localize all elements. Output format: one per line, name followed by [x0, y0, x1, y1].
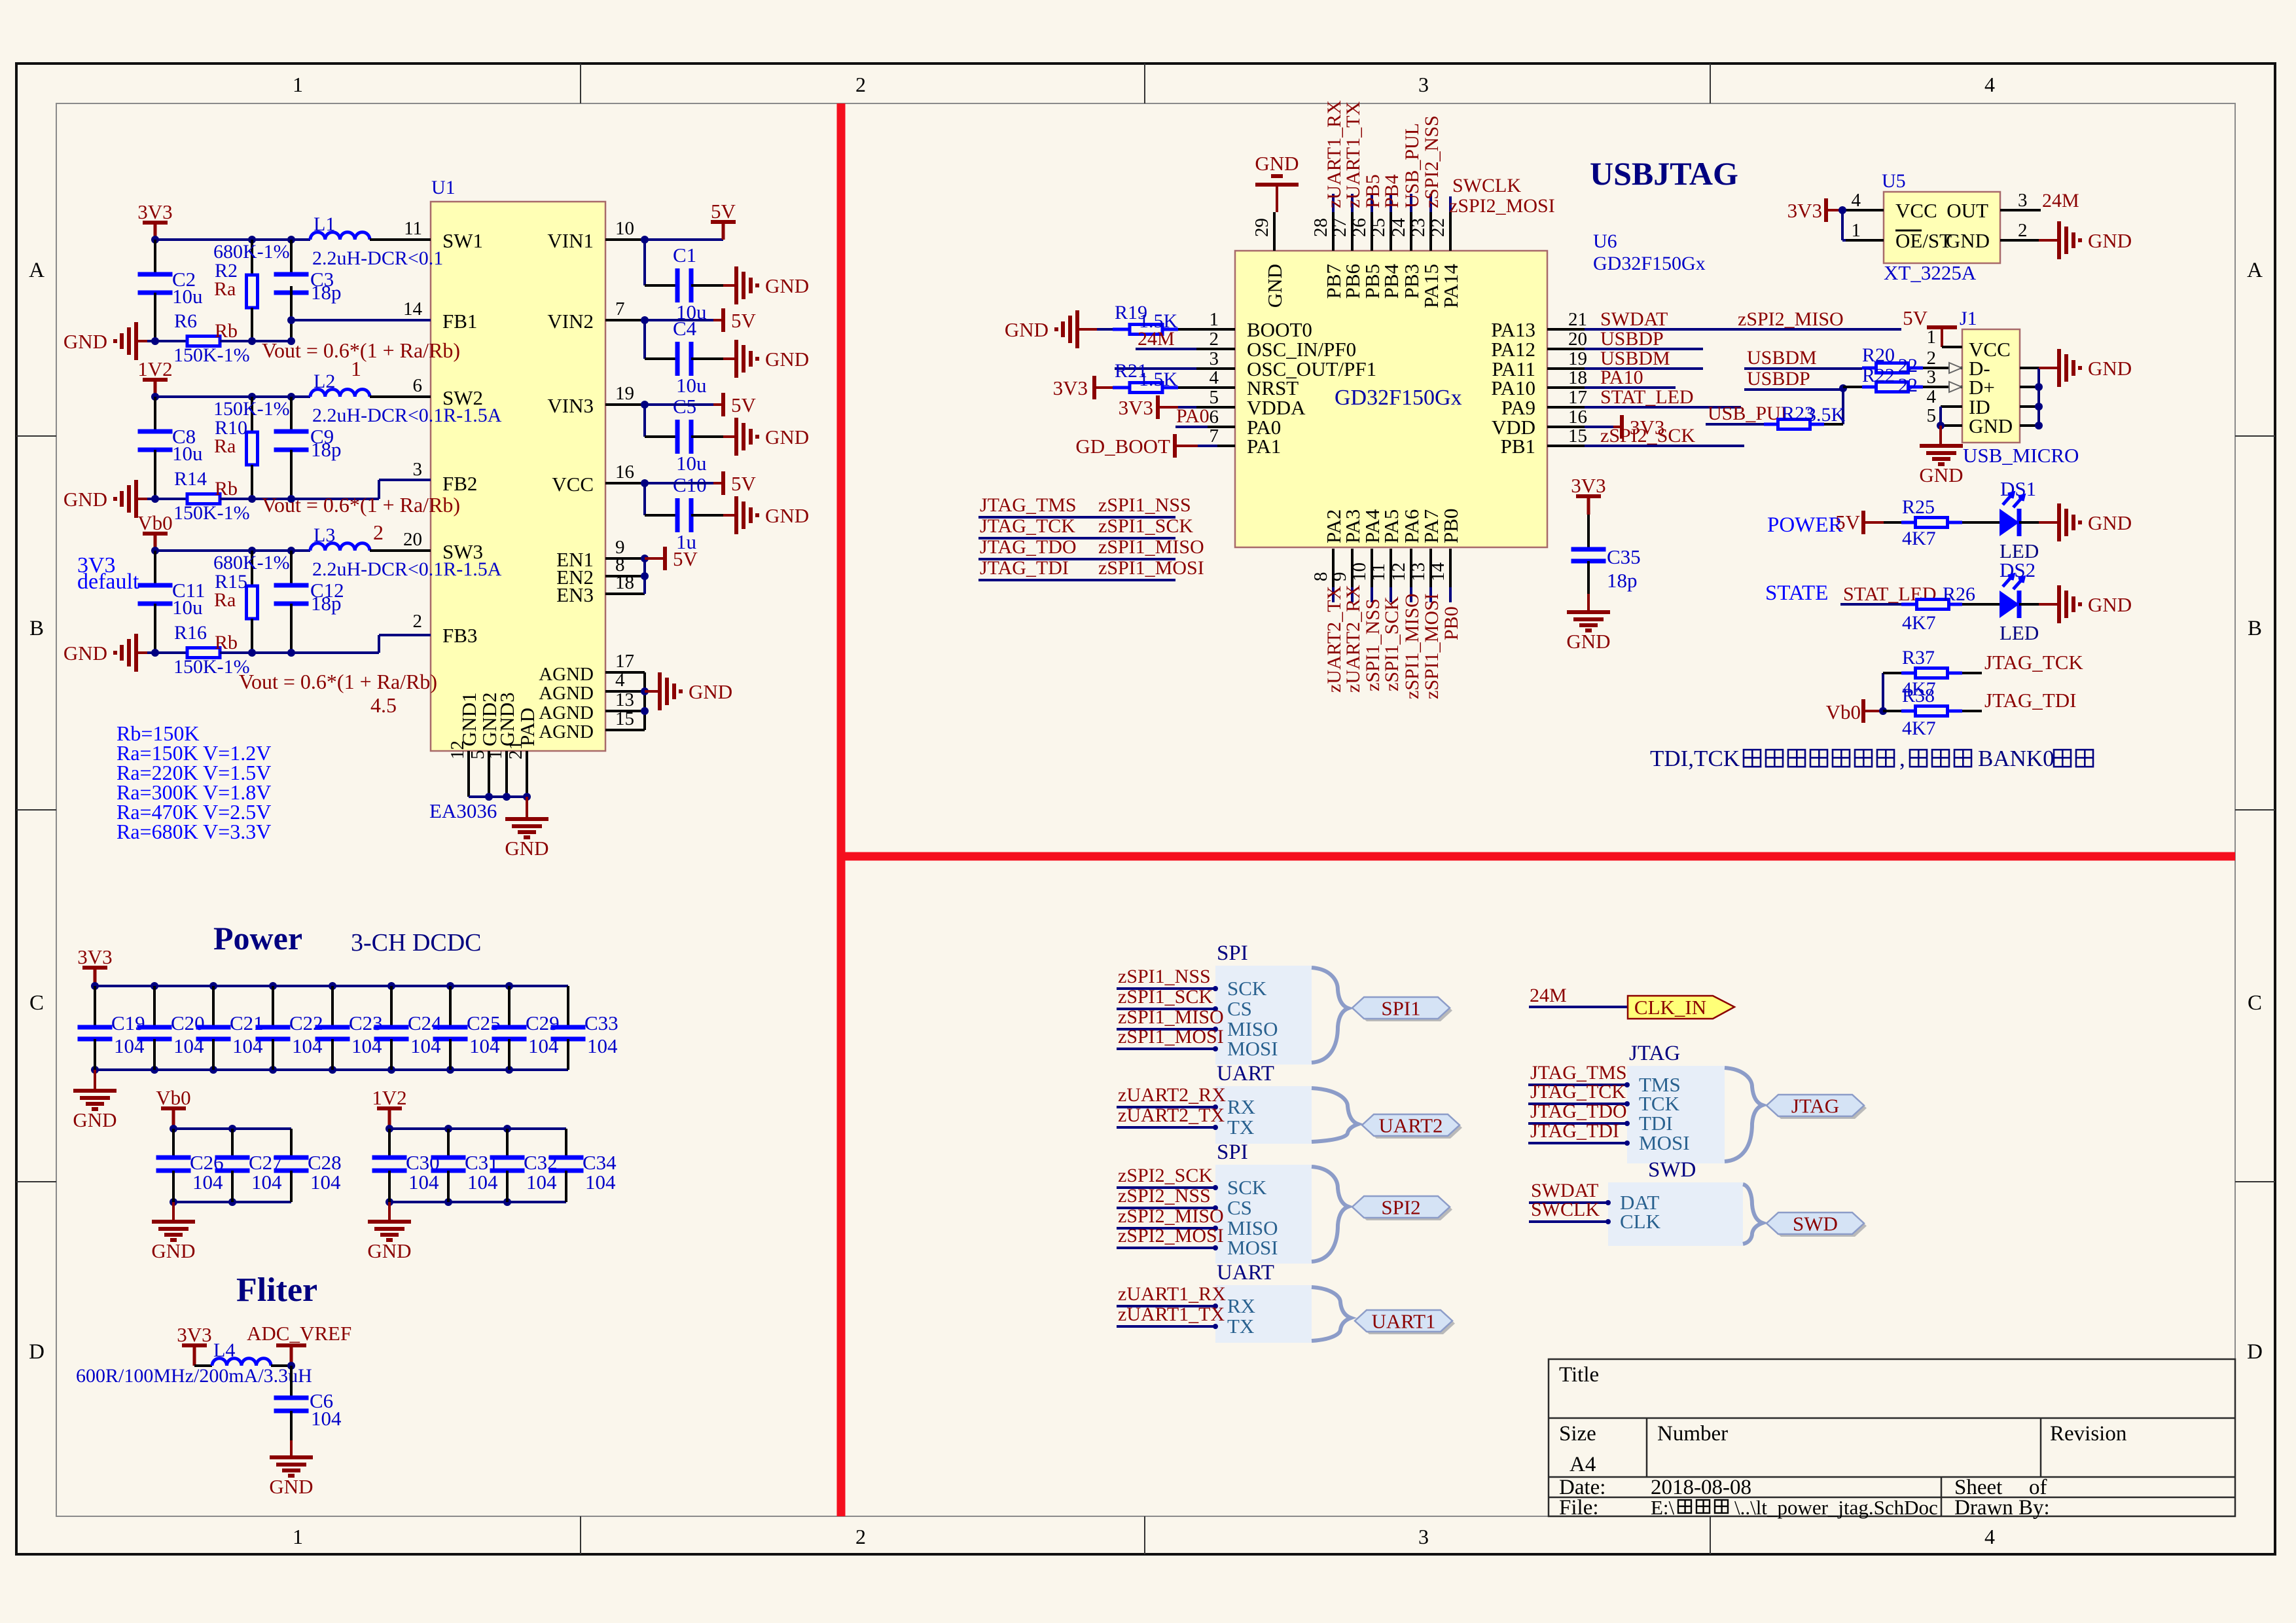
power 3V3 VDD: [1585, 426, 1613, 428]
U1 pin 18 EN3: [605, 593, 645, 595]
svg-text:Vout = 0.6*(1 + Ra/Rb): Vout = 0.6*(1 + Ra/Rb): [239, 670, 437, 693]
svg-text:Revision: Revision: [2050, 1422, 2126, 1446]
svg-text:UART: UART: [1217, 1261, 1274, 1285]
svg-text:18p: 18p: [1607, 569, 1638, 592]
resistor R38 4K7: [1883, 710, 1901, 712]
svg-text:C1: C1: [673, 244, 696, 266]
wire J1 right gnd: [2020, 367, 2039, 369]
inductor L1: [310, 232, 370, 240]
svg-text:VCC: VCC: [552, 473, 594, 496]
resistor R2 Ra: [251, 240, 253, 275]
svg-text:GD_BOOT: GD_BOOT: [1075, 435, 1170, 458]
svg-text:C19: C19: [111, 1012, 145, 1034]
ground 1V2 block: [134, 480, 138, 518]
svg-text:JTAG_TCK: JTAG_TCK: [1530, 1081, 1626, 1103]
svg-text:1: 1: [1210, 309, 1219, 330]
svg-text:Ra: Ra: [214, 278, 236, 300]
svg-text:STATE: STATE: [1765, 581, 1828, 605]
U1 pin 1 GND3: [505, 751, 508, 797]
U6 pin 19 PA11: [1547, 367, 1585, 370]
svg-text:JTAG_TDI: JTAG_TDI: [980, 557, 1069, 579]
svg-text:2: 2: [855, 1525, 866, 1548]
svg-text:2: 2: [1927, 348, 1937, 369]
svg-text:USBDP: USBDP: [1600, 328, 1664, 350]
svg-text:LED: LED: [2000, 621, 2039, 644]
svg-text:PB1: PB1: [1501, 435, 1535, 458]
svg-text:24: 24: [1388, 218, 1409, 238]
svg-text:CLK_IN: CLK_IN: [1634, 996, 1706, 1019]
svg-text:zSPI2_MISO: zSPI2_MISO: [1738, 308, 1844, 330]
capacitor C22: [269, 982, 277, 990]
svg-text:Fliter: Fliter: [236, 1271, 317, 1309]
svg-text:C23: C23: [349, 1012, 383, 1034]
U6 pin 10 PA4: [1371, 549, 1373, 587]
svg-text:OE/ST: OE/ST: [1895, 229, 1952, 252]
svg-text:104: 104: [251, 1171, 282, 1194]
net label zUART1_RX: [1332, 194, 1335, 212]
svg-text:JTAG: JTAG: [1629, 1042, 1680, 1065]
svg-text:U6: U6: [1593, 230, 1617, 252]
svg-text:\..\lt_power_jtag.SchDoc: \..\lt_power_jtag.SchDoc: [1734, 1496, 1938, 1519]
ground C6: [270, 1455, 313, 1459]
resistor R14 Rb: [187, 494, 220, 504]
svg-text:27: 27: [1329, 218, 1350, 237]
svg-text:3V3: 3V3: [177, 1323, 211, 1346]
svg-text:GND1: GND1: [457, 692, 480, 746]
svg-text:PA14: PA14: [1439, 264, 1462, 308]
svg-text:FB3: FB3: [442, 624, 477, 647]
svg-text:23: 23: [1408, 218, 1429, 237]
svg-text:GND: GND: [1919, 464, 1963, 486]
svg-text:3: 3: [1210, 348, 1219, 369]
svg-text:3: 3: [2018, 190, 2028, 211]
svg-text:VCC: VCC: [1895, 199, 1937, 222]
svg-text:zSPI2_NSS: zSPI2_NSS: [1118, 1185, 1211, 1207]
U1 pin 15 AGND: [605, 729, 645, 731]
svg-text:2: 2: [855, 73, 866, 96]
svg-text:SPI: SPI: [1217, 1140, 1248, 1164]
U1 pin 10 VIN1: [605, 238, 645, 241]
svg-text:SPI: SPI: [1217, 941, 1248, 965]
svg-text:104: 104: [585, 1171, 616, 1194]
svg-text:GND: GND: [73, 1108, 117, 1131]
svg-text:UART2: UART2: [1378, 1114, 1443, 1137]
wire VIN column C1: [641, 236, 649, 244]
svg-text:JTAG_TMS: JTAG_TMS: [980, 494, 1077, 516]
svg-text:5V: 5V: [731, 309, 757, 332]
svg-text:GND: GND: [505, 837, 548, 860]
svg-text:28: 28: [1310, 218, 1331, 237]
ground C4: [723, 357, 736, 360]
svg-text:GND: GND: [2088, 593, 2132, 616]
svg-text:1: 1: [293, 1525, 303, 1548]
net label zSPI2_NSS: [1429, 194, 1432, 212]
port UART1: [1357, 1313, 1455, 1334]
svg-text:3V3: 3V3: [137, 200, 172, 223]
ground J1 bottom: [1939, 426, 1942, 446]
U5 pin 4 VCC: [1846, 209, 1884, 211]
capacitor C20: [151, 982, 158, 990]
svg-text:2: 2: [2018, 220, 2028, 241]
svg-text:R37: R37: [1902, 647, 1935, 668]
svg-text:GND: GND: [1255, 152, 1299, 175]
svg-text:Vb0: Vb0: [1826, 701, 1861, 723]
U1 pin 14 FB1: [370, 319, 431, 321]
svg-text:4.5: 4.5: [370, 693, 397, 717]
svg-text:3: 3: [1927, 367, 1937, 388]
svg-text:default: default: [77, 570, 139, 594]
svg-text:3V3: 3V3: [1119, 396, 1153, 419]
svg-text:USBDM: USBDM: [1747, 347, 1817, 369]
svg-text:ADC_VREF: ADC_VREF: [247, 1322, 351, 1345]
J1 pin 3 D+: [1941, 386, 1962, 388]
IC U6 GD32F150Gx: [1235, 251, 1547, 547]
svg-text:JTAG_TDI: JTAG_TDI: [1530, 1120, 1619, 1142]
svg-text:14: 14: [1427, 562, 1448, 582]
svg-text:PA0: PA0: [1176, 405, 1210, 427]
brace UART1: [1312, 1287, 1351, 1341]
brace SWD: [1743, 1184, 1763, 1244]
wire cap bus top: [95, 985, 568, 987]
svg-text:104: 104: [310, 1171, 341, 1194]
svg-text:SWDAT: SWDAT: [1600, 308, 1668, 330]
svg-text:U5: U5: [1882, 170, 1906, 192]
svg-text:zSPI1_SCK: zSPI1_SCK: [1118, 986, 1213, 1008]
svg-text:zUART2_TX: zUART2_TX: [1118, 1104, 1225, 1126]
svg-text:2: 2: [413, 611, 423, 632]
svg-text:C20: C20: [171, 1012, 205, 1034]
svg-text:DS2: DS2: [2000, 558, 2036, 581]
port SPI1: [1355, 1000, 1452, 1021]
svg-text:18: 18: [615, 572, 634, 593]
capacitor C35 18p: [1571, 547, 1606, 552]
svg-text:10: 10: [615, 218, 634, 239]
svg-text:GND: GND: [367, 1239, 411, 1262]
svg-text:26: 26: [1349, 218, 1370, 237]
svg-text:L3: L3: [314, 524, 335, 546]
wire USB_PUL vertical: [1842, 388, 1844, 424]
U6 pin 22 PA14: [1449, 212, 1452, 251]
svg-text:R38: R38: [1902, 685, 1935, 706]
svg-text:GND: GND: [2088, 229, 2132, 252]
ground 3V3 block: [134, 322, 138, 360]
svg-text:PB4: PB4: [1380, 264, 1403, 299]
svg-text:AGND: AGND: [539, 683, 594, 704]
resistor R23 3.5K: [1764, 423, 1778, 426]
wire fb node: [220, 340, 291, 342]
svg-text:C33: C33: [584, 1012, 619, 1034]
net label zUART1_TX: [1351, 194, 1354, 212]
svg-text:2.2uH-DCR<0.1R-1.5A: 2.2uH-DCR<0.1R-1.5A: [312, 405, 502, 426]
svg-text:GND: GND: [269, 1475, 313, 1498]
svg-text:3-CH DCDC: 3-CH DCDC: [351, 929, 482, 957]
svg-text:14: 14: [403, 299, 423, 319]
svg-text:1.5K: 1.5K: [1139, 369, 1178, 390]
svg-text:5V: 5V: [731, 472, 757, 495]
svg-text:25: 25: [1368, 218, 1389, 237]
svg-text:GND: GND: [2088, 511, 2132, 534]
svg-text:GND: GND: [1005, 318, 1049, 341]
svg-text:Ra=680K V=3.3V: Ra=680K V=3.3V: [117, 820, 271, 843]
U6 pin 14 PB0: [1449, 549, 1452, 587]
svg-text:CS: CS: [1227, 997, 1252, 1020]
capacitor C27: [228, 1125, 236, 1133]
svg-text:zSPI1_NSS: zSPI1_NSS: [1098, 494, 1191, 516]
U1 pin 16 VCC: [605, 482, 645, 484]
U5 pin 2 GND: [2000, 239, 2039, 242]
svg-text:zSPI1_MOSI: zSPI1_MOSI: [1118, 1026, 1224, 1048]
svg-text:FB1: FB1: [442, 310, 477, 333]
svg-text:TX: TX: [1227, 1315, 1254, 1338]
capacitor C9: [290, 397, 293, 431]
net label USB_PUL: [1410, 194, 1412, 212]
U1 pin 13 AGND: [605, 710, 645, 712]
capacitor C3: [290, 240, 293, 274]
resistor R15 Ra: [251, 551, 253, 586]
red divider line horizontal: [841, 852, 2235, 861]
svg-text:zUART1_TX: zUART1_TX: [1118, 1304, 1225, 1325]
U6 pin 23 PA15: [1429, 212, 1432, 251]
svg-text:PB0: PB0: [1439, 509, 1462, 543]
wire OSC_OUT: [1115, 367, 1196, 370]
resistor R25 4K7: [1901, 521, 1916, 524]
svg-text:13: 13: [1408, 562, 1429, 581]
svg-text:C24: C24: [408, 1012, 442, 1034]
svg-text:15: 15: [1568, 426, 1587, 447]
svg-text:GND: GND: [765, 348, 809, 371]
svg-text:J1: J1: [1960, 308, 1977, 329]
svg-text:11: 11: [1368, 563, 1389, 581]
svg-text:R26: R26: [1943, 583, 1975, 605]
J1 pin 5 GND: [1941, 424, 1962, 427]
svg-text:zSPI2_SCK: zSPI2_SCK: [1600, 425, 1695, 447]
svg-text:JTAG: JTAG: [1791, 1095, 1839, 1118]
resistor R26 4K7: [1901, 603, 1917, 606]
svg-text:A: A: [2247, 259, 2263, 282]
wire FB1: [291, 319, 431, 321]
power 5V: [645, 403, 713, 406]
svg-text:7: 7: [1210, 426, 1219, 447]
svg-text:20: 20: [1568, 329, 1587, 350]
svg-text:TX: TX: [1227, 1116, 1254, 1139]
svg-text:zSPI1_NSS: zSPI1_NSS: [1118, 966, 1211, 987]
capacitor C1: [675, 268, 680, 302]
wire to SW pin: [370, 238, 431, 241]
title block: [1549, 1359, 2235, 1516]
svg-text:C29: C29: [526, 1012, 560, 1034]
connector J1 USB_MICRO: [1962, 329, 2020, 443]
capacitor C30: [386, 1125, 393, 1133]
svg-text:D: D: [2247, 1340, 2263, 1364]
svg-text:PAD: PAD: [516, 708, 539, 746]
svg-text:EN3: EN3: [556, 583, 594, 606]
capacitor C28: [290, 1129, 293, 1158]
U5 pin 1 OE/ST: [1846, 239, 1884, 242]
svg-text:PA10: PA10: [1600, 367, 1643, 388]
inductor L3: [310, 543, 370, 551]
capacitor C10: [675, 498, 680, 532]
IC U1 EA3036: [431, 202, 605, 751]
svg-text:UART1: UART1: [1371, 1310, 1435, 1333]
svg-text:zSPI2_SCK: zSPI2_SCK: [1118, 1165, 1213, 1186]
net label SWCLK / zSPI2_MOSI: [1449, 196, 1452, 212]
svg-text:10u: 10u: [172, 442, 203, 465]
brace UART2: [1312, 1088, 1358, 1142]
resistor R10 Ra: [251, 397, 253, 432]
red divider line vertical: [837, 103, 846, 1516]
svg-text:DS1: DS1: [2000, 477, 2036, 500]
capacitor C12: [290, 551, 293, 585]
wire fb node: [220, 651, 291, 654]
svg-text:C35: C35: [1607, 545, 1641, 568]
svg-text:GND: GND: [63, 488, 107, 511]
svg-text:10u: 10u: [676, 374, 707, 397]
U6 pin 6 PA0: [1196, 426, 1235, 428]
svg-text:GD32F150Gx: GD32F150Gx: [1335, 386, 1462, 410]
svg-text:Number: Number: [1657, 1422, 1728, 1446]
svg-text:6: 6: [1210, 407, 1219, 428]
resistor R16 Rb: [187, 648, 220, 658]
svg-text:4: 4: [1852, 190, 1861, 211]
resistor R37 4K7: [1883, 672, 1901, 674]
svg-text:3: 3: [413, 459, 423, 480]
capacitor C33: [567, 986, 569, 1027]
svg-text:SWCLK: SWCLK: [1452, 175, 1521, 196]
U6 pin 12 PA6: [1410, 549, 1412, 587]
U6 pin 27 PB6: [1351, 212, 1354, 251]
svg-text:17: 17: [615, 651, 634, 672]
svg-text:17: 17: [1568, 387, 1587, 408]
svg-text:24M: 24M: [2042, 190, 2079, 211]
U1 pin 4 AGND: [605, 690, 645, 693]
svg-text:18p: 18p: [311, 592, 342, 615]
U1 pin 5 GND2: [488, 751, 490, 797]
svg-text:Vout = 0.6*(1 + Ra/Rb): Vout = 0.6*(1 + Ra/Rb): [262, 493, 460, 517]
svg-text:GND: GND: [1263, 264, 1286, 308]
capacitor C4: [675, 342, 680, 376]
svg-text:10u: 10u: [676, 452, 707, 475]
svg-text:JTAG_TDI: JTAG_TDI: [1984, 689, 2076, 712]
svg-text:4: 4: [1927, 386, 1937, 407]
svg-text:5V: 5V: [711, 200, 736, 223]
svg-text:5V: 5V: [731, 393, 757, 416]
port JTAG: [1769, 1097, 1867, 1119]
svg-text:4K7: 4K7: [1902, 528, 1936, 549]
svg-text:4: 4: [1984, 73, 1995, 96]
svg-text:GND: GND: [1946, 229, 1990, 252]
svg-text:File:: File:: [1559, 1496, 1599, 1520]
ground C35: [1587, 594, 1590, 612]
net label zUART2_RX: [1351, 587, 1354, 602]
svg-text:4K7: 4K7: [1902, 718, 1936, 739]
svg-text:GND: GND: [765, 426, 809, 448]
svg-text:R25: R25: [1902, 496, 1935, 518]
svg-text:E:\: E:\: [1651, 1496, 1675, 1519]
svg-text:150K-1%: 150K-1%: [173, 502, 250, 524]
svg-text:C: C: [2248, 991, 2262, 1015]
svg-text:4K7: 4K7: [1902, 612, 1936, 634]
svg-text:R16: R16: [174, 622, 207, 644]
net label zSPI1_NSS: [1371, 587, 1373, 602]
svg-text:CS: CS: [1227, 1196, 1252, 1219]
U1 pin 8 EN2: [605, 575, 645, 577]
svg-text:12: 12: [1388, 562, 1409, 581]
wire to SW pin: [370, 549, 431, 552]
capacitor C25: [446, 982, 454, 990]
svg-text:GND: GND: [1566, 630, 1610, 653]
U1 pin 11 SW1: [370, 238, 431, 241]
svg-text:11: 11: [404, 218, 422, 239]
svg-text:R22: R22: [1862, 365, 1895, 386]
U6 pin 2 OSC_IN/PF0: [1196, 348, 1235, 350]
svg-text:24M: 24M: [1530, 985, 1567, 1006]
svg-text:10u: 10u: [172, 285, 203, 308]
svg-text:16: 16: [1568, 407, 1587, 428]
svg-text:29: 29: [1251, 218, 1272, 237]
svg-text:OUT: OUT: [1946, 199, 1988, 222]
svg-text:SCK: SCK: [1227, 977, 1267, 1000]
U6 pin 5 VDDA: [1196, 406, 1235, 409]
ground DS2: [2039, 603, 2059, 606]
U6 pin 3 OSC_OUT/PF1: [1196, 367, 1235, 370]
svg-text:1V2: 1V2: [137, 357, 172, 380]
capacitor C26: [170, 1125, 177, 1133]
svg-text:R20: R20: [1862, 344, 1895, 366]
ground Vb0 block: [134, 634, 138, 672]
capacitor C24: [387, 982, 395, 990]
U6 pin 18 PA10: [1547, 386, 1585, 389]
svg-text:SPI2: SPI2: [1381, 1196, 1420, 1219]
svg-text:SPI1: SPI1: [1381, 997, 1420, 1020]
svg-text:Vb0: Vb0: [137, 511, 172, 534]
svg-text:GND3: GND3: [495, 692, 518, 746]
svg-text:U1: U1: [431, 177, 456, 198]
svg-text:STAT_LED: STAT_LED: [1600, 386, 1694, 408]
brace SPI1: [1312, 968, 1348, 1063]
svg-text:20: 20: [403, 529, 422, 550]
U6 pin 4 NRST: [1196, 386, 1235, 389]
U1 pin 12 GND1: [467, 751, 470, 797]
svg-text:8: 8: [1310, 572, 1331, 582]
svg-text:USBDP: USBDP: [1747, 368, 1810, 390]
svg-text:1u: 1u: [676, 530, 696, 553]
svg-text:zUART1_TX: zUART1_TX: [1342, 101, 1364, 208]
svg-text:,: ,: [1899, 746, 1905, 771]
net label zUART2_TX: [1332, 587, 1335, 602]
svg-text:SW1: SW1: [442, 229, 483, 252]
svg-text:104: 104: [408, 1171, 439, 1194]
svg-text:1: 1: [485, 750, 506, 760]
svg-text:PA5: PA5: [1380, 509, 1403, 543]
svg-text:104: 104: [192, 1171, 223, 1194]
svg-text:zSPI2_NSS: zSPI2_NSS: [1421, 115, 1443, 208]
svg-text:3V3: 3V3: [1571, 474, 1605, 497]
svg-text:VIN2: VIN2: [547, 310, 594, 333]
ground U5: [2039, 239, 2059, 242]
svg-text:C10: C10: [673, 473, 707, 496]
svg-text:7: 7: [615, 299, 625, 319]
net label zSPI1_MOSI: [1429, 587, 1432, 602]
resistor R19 1.5K: [1113, 328, 1130, 331]
svg-text:L1: L1: [314, 213, 335, 235]
svg-text:10u: 10u: [172, 596, 203, 619]
wire AGND join: [643, 672, 646, 730]
svg-text:GND: GND: [63, 330, 107, 353]
svg-text:SCK: SCK: [1227, 1176, 1267, 1199]
svg-text:R14: R14: [174, 468, 207, 490]
ground caps g2: [172, 1202, 175, 1222]
svg-text:22: 22: [1427, 218, 1448, 237]
